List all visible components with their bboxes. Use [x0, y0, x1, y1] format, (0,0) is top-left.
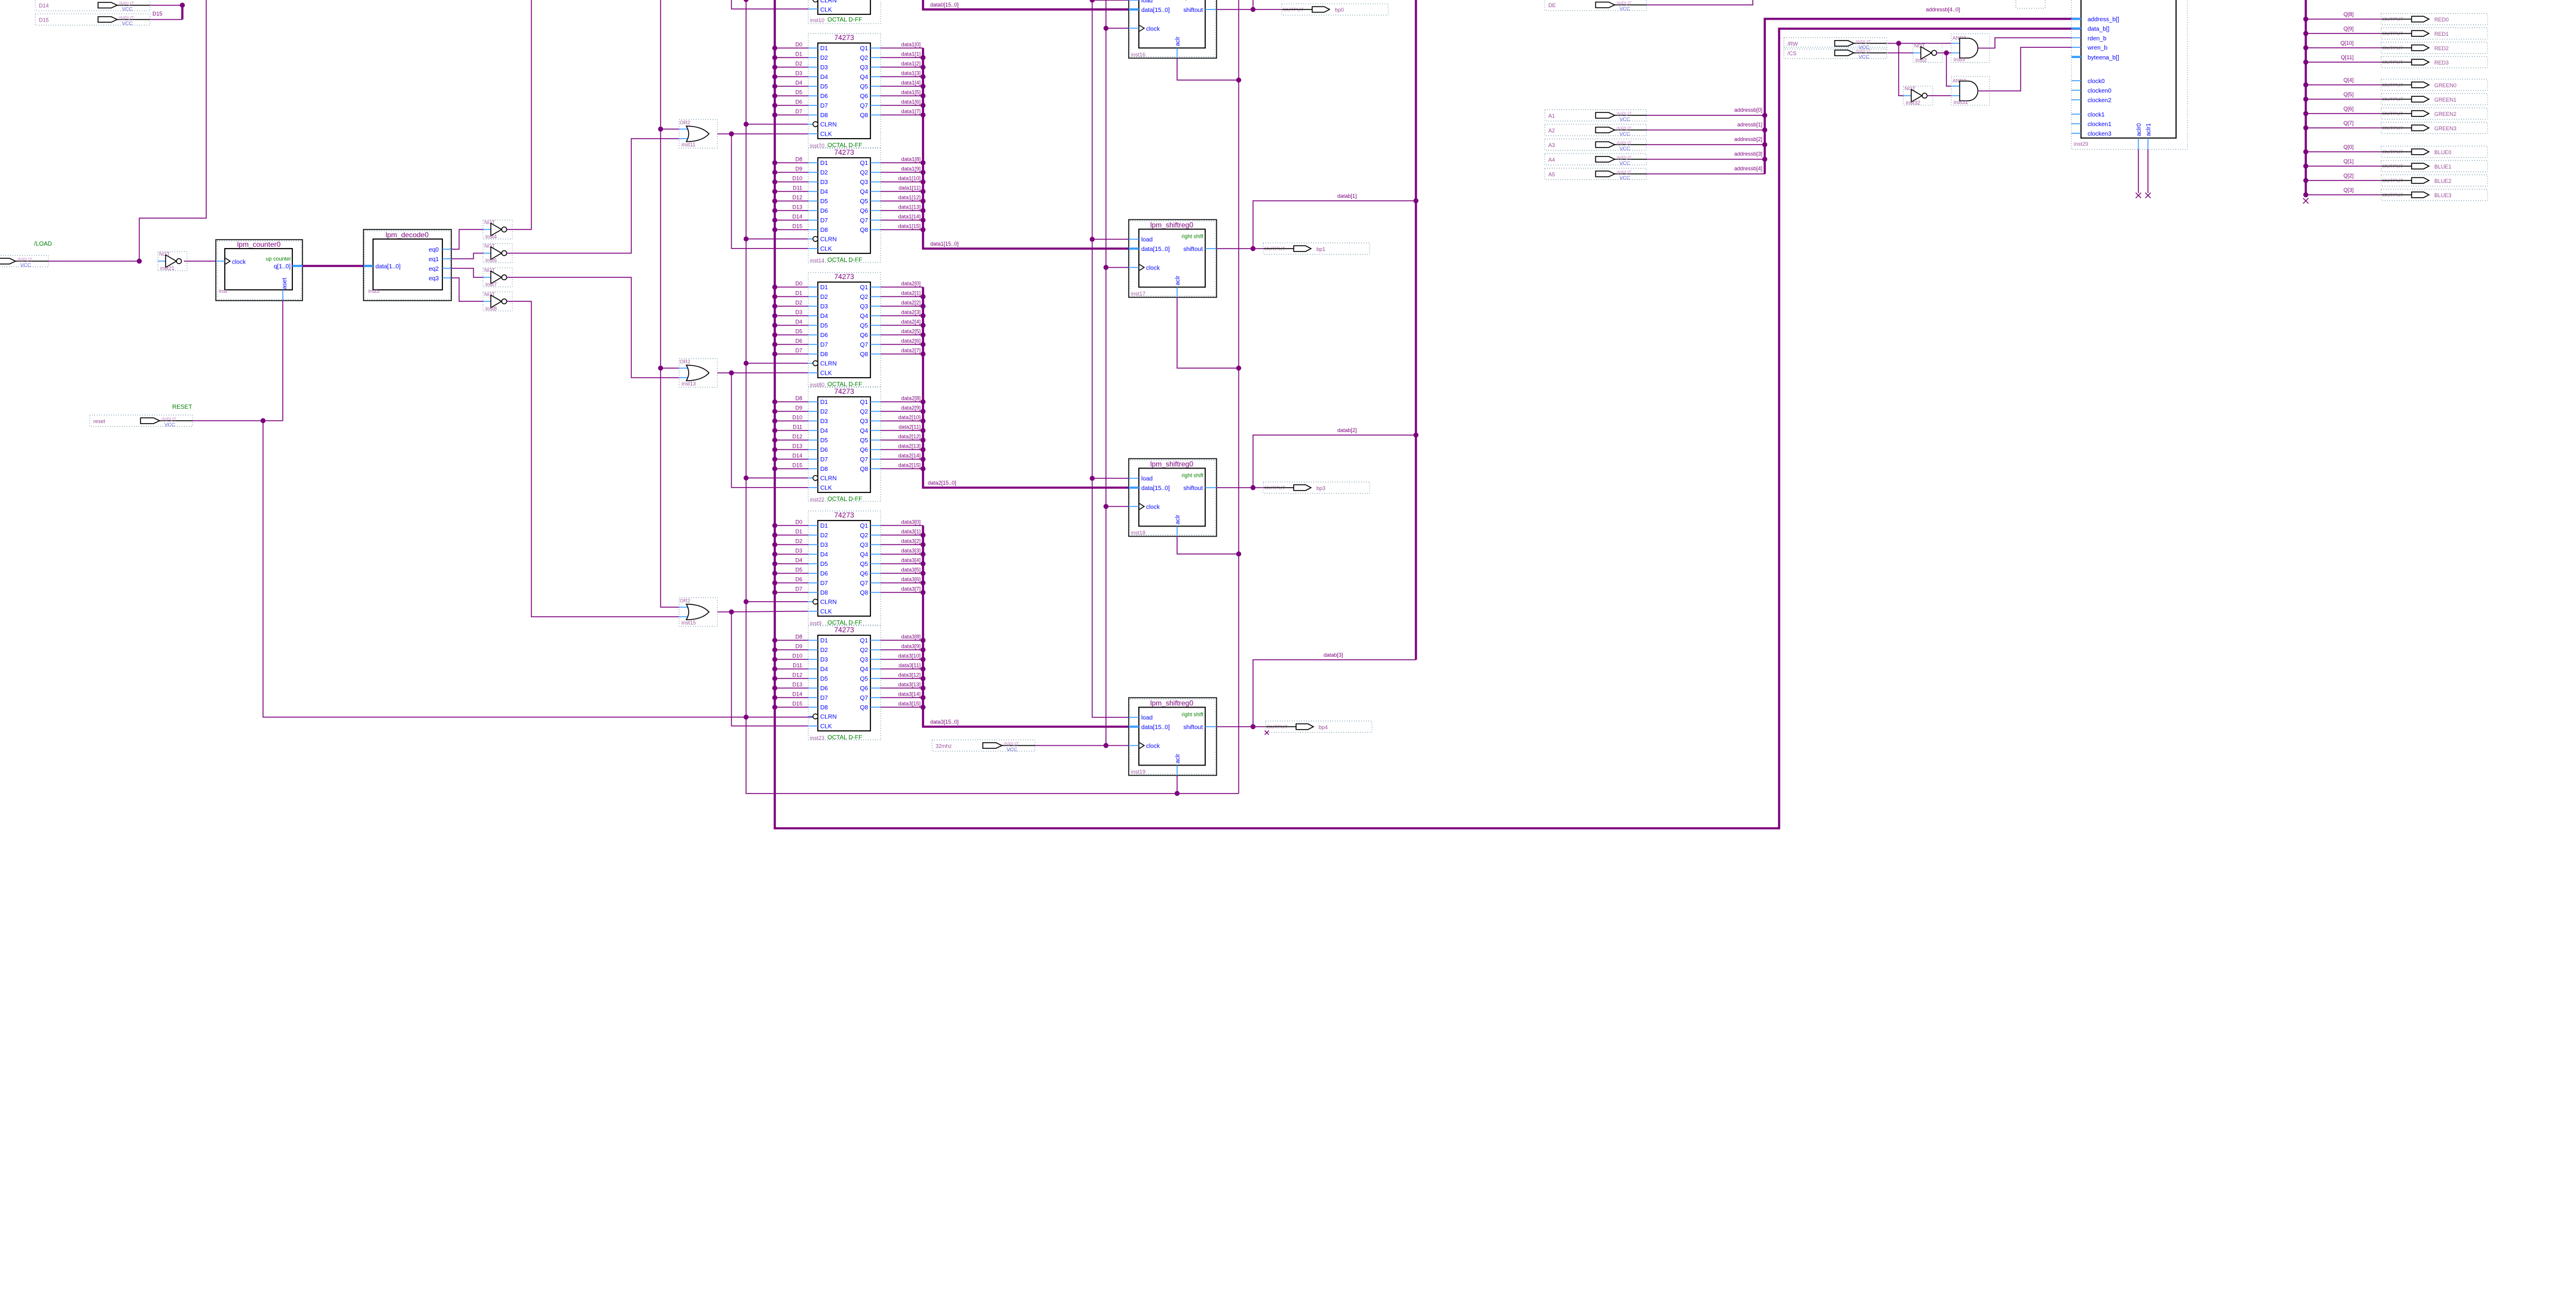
node adressb[1] label [1737, 122, 1762, 128]
junction bp3 [1251, 485, 1255, 490]
svg-text:data[15..0]: data[15..0] [1141, 485, 1170, 492]
wire /RW down to inst32 [1899, 44, 1903, 96]
svg-text:D4: D4 [795, 558, 802, 564]
and gate inst9 [1951, 34, 1990, 63]
svg-text:Q[1]: Q[1] [2343, 158, 2354, 164]
svg-text:inst6: inst6 [485, 258, 497, 264]
wire eq3 to inst8 [451, 278, 483, 301]
svg-text:D13: D13 [792, 443, 802, 449]
svg-text:data3[14]: data3[14] [898, 691, 921, 697]
wire datab[2] [1253, 435, 1416, 488]
net /LOAD label [34, 241, 52, 247]
wires Q outputs inst14 [881, 157, 923, 230]
svg-text:RESET: RESET [172, 404, 192, 411]
svg-text:VCC: VCC [1007, 746, 1017, 752]
output pin BLUE1 [2381, 161, 2488, 172]
svg-text:CLRN: CLRN [820, 476, 836, 482]
svg-text:74273: 74273 [834, 33, 854, 42]
or gate inst13 [679, 359, 717, 387]
node Q[8] label [2343, 11, 2354, 17]
svg-text:data3[3]: data3[3] [901, 548, 921, 554]
svg-text:D2: D2 [795, 300, 802, 306]
junction aclr inst16 [1236, 78, 1241, 82]
output pin GREEN2 [2381, 108, 2488, 120]
svg-text:D4: D4 [795, 319, 802, 325]
svg-text:GREEN0: GREEN0 [2434, 82, 2456, 88]
svg-text:Q7: Q7 [860, 580, 869, 587]
svg-text:data1[11]: data1[11] [899, 185, 921, 191]
svg-text:D3: D3 [820, 65, 828, 71]
output pin GREEN3 [2381, 123, 2488, 134]
wires D inputs inst23 [772, 634, 808, 710]
wire inst2 out down to inst31 [1946, 53, 1951, 87]
node Q[4] label [2343, 77, 2354, 83]
svg-text:data3[5]: data3[5] [901, 567, 921, 573]
svg-text:data3[7]: data3[7] [901, 586, 921, 592]
svg-text:load: load [1141, 715, 1153, 721]
wire inst6 out to or inst11 [507, 139, 679, 253]
svg-text:VCC: VCC [1619, 131, 1630, 137]
wire shiftout inst18 [1217, 487, 1263, 488]
wire shiftout inst19 [1217, 726, 1266, 727]
svg-text:aset: aset [282, 278, 288, 289]
svg-text:data2[0]: data2[0] [901, 281, 921, 287]
svg-text:inst22: inst22 [810, 497, 824, 503]
svg-text:D3: D3 [820, 542, 828, 549]
svg-text:Q5: Q5 [860, 198, 869, 205]
svg-text:D6: D6 [795, 577, 802, 583]
svg-text:clocken2: clocken2 [2088, 97, 2111, 104]
svg-text:D5: D5 [820, 323, 828, 329]
input pin 32mhz [932, 740, 1035, 752]
svg-text:data1[3]: data1[3] [901, 71, 921, 76]
junction addressb1 [1762, 127, 1767, 132]
svg-text:inst11: inst11 [682, 142, 695, 148]
svg-text:Q5: Q5 [860, 676, 869, 682]
svg-text:load: load [1141, 237, 1153, 243]
svg-text:aclr: aclr [1175, 754, 1181, 764]
wires Q outputs inst80 [881, 281, 923, 354]
svg-text:inst4: inst4 [485, 234, 497, 240]
svg-text:VCC: VCC [1619, 160, 1630, 166]
svg-text:wren_b: wren_b [2087, 45, 2107, 51]
net RESET label [172, 404, 192, 411]
junction bp0 [1251, 7, 1255, 12]
svg-text:D2: D2 [820, 170, 828, 176]
svg-text:D15: D15 [792, 224, 802, 229]
node addressb[4..0] label [1926, 7, 1960, 13]
svg-text:data1[5]: data1[5] [901, 90, 921, 96]
svg-text:D3: D3 [820, 418, 828, 425]
wire Q[5] to GREEN1 [2303, 97, 2381, 102]
svg-text:D10: D10 [792, 176, 802, 182]
output pin BLUE0 [2381, 146, 2488, 158]
svg-text:OR2: OR2 [680, 359, 690, 365]
74273 OCTAL D-FF inst14 [808, 148, 881, 264]
svg-text:Q1: Q1 [860, 45, 869, 52]
output pin RED0 [2381, 14, 2488, 25]
svg-text:inst2: inst2 [1915, 57, 1927, 63]
bus Q outputs vertical [2305, 0, 2307, 197]
svg-text:D4: D4 [820, 552, 828, 558]
node addressb[0] label [1734, 107, 1762, 113]
input pin A2 [1545, 124, 1646, 137]
svg-text:D8: D8 [795, 157, 802, 163]
svg-text:D3: D3 [820, 657, 828, 663]
svg-text:BLUE1: BLUE1 [2434, 164, 2452, 170]
lpm_shiftreg0 inst18 [1129, 459, 1217, 537]
wire aclr1 dangling [2147, 149, 2149, 193]
svg-text:clock1: clock1 [2088, 112, 2105, 118]
wires Q outputs inst23 [881, 634, 923, 708]
svg-text:D15: D15 [792, 463, 802, 469]
svg-text:eq0: eq0 [429, 247, 439, 253]
svg-text:eq2: eq2 [429, 266, 439, 273]
wires D inputs inst70 [772, 42, 808, 118]
wire aclr0 dangling [2138, 149, 2139, 193]
svg-text:D2: D2 [795, 61, 802, 67]
svg-text:BLUE2: BLUE2 [2434, 178, 2452, 184]
junction datab[1] on bus [1413, 198, 1418, 203]
junction addressb2 [1762, 142, 1767, 147]
svg-text:inst18: inst18 [1131, 530, 1145, 536]
svg-text:Q7: Q7 [860, 342, 869, 348]
output pin GREEN0 [2381, 79, 2488, 91]
svg-text:Q2: Q2 [860, 55, 869, 62]
bus data2[15..0] [921, 287, 1129, 488]
wires Q outputs inst22 [881, 396, 923, 469]
svg-text:D5: D5 [820, 84, 828, 90]
svg-text:D14: D14 [792, 691, 802, 697]
74273 OCTAL D-FF inst22 [808, 387, 881, 503]
svg-text:D1: D1 [795, 51, 802, 57]
svg-text:data[1..0]: data[1..0] [375, 264, 401, 270]
bus data2 label [928, 480, 957, 486]
bus data0[15..0] [923, 0, 1129, 10]
svg-text:D2: D2 [820, 294, 828, 301]
svg-text:D0: D0 [795, 42, 802, 48]
svg-text:GREEN3: GREEN3 [2434, 125, 2456, 131]
svg-text:OR2: OR2 [680, 120, 690, 125]
svg-text:D3: D3 [820, 179, 828, 186]
svg-text:RED1: RED1 [2434, 31, 2449, 37]
wire aclr inst16 [1177, 58, 1239, 80]
wire or-chain vertical [661, 0, 679, 607]
svg-text:Q7: Q7 [860, 218, 869, 224]
junction clrn inst23 on reset net [744, 715, 748, 720]
svg-text:data1[1]: data1[1] [901, 51, 921, 57]
wire Q[6] to GREEN2 [2303, 111, 2381, 116]
svg-text:clocken1: clocken1 [2088, 121, 2111, 128]
svg-text:data3[10]: data3[10] [898, 653, 921, 659]
svg-text:shiftout: shiftout [1183, 246, 1203, 253]
svg-text:D8: D8 [795, 396, 802, 402]
output pin bp0 [1282, 4, 1388, 15]
wire Q[1] to BLUE1 [2303, 164, 2381, 169]
svg-text:A5: A5 [1548, 172, 1555, 177]
junction /RW [1896, 41, 1901, 45]
output pin BLUE3 [2381, 189, 2488, 201]
wire Q[3] to BLUE3 [2303, 192, 2381, 197]
svg-text:Q[4]: Q[4] [2343, 77, 2354, 83]
input pin /RW [1784, 38, 1887, 50]
svg-text:data2[3]: data2[3] [901, 310, 921, 316]
wire Q[10] to RED2 [2303, 45, 2381, 50]
svg-text:rden_b: rden_b [2088, 35, 2107, 42]
svg-text:D8: D8 [820, 705, 828, 711]
svg-text:D11: D11 [793, 185, 802, 191]
svg-text:data2[12]: data2[12] [898, 434, 921, 440]
svg-text:D7: D7 [820, 457, 828, 463]
input pin A4 [1545, 154, 1646, 166]
junction clrn inst80 [744, 361, 748, 366]
svg-text:CLK: CLK [820, 609, 832, 616]
svg-text:Q6: Q6 [860, 332, 869, 339]
svg-text:data2[7]: data2[7] [901, 348, 921, 354]
svg-text:lpm_counter0: lpm_counter0 [237, 240, 281, 249]
svg-text:VCC: VCC [1619, 117, 1630, 123]
svg-text:byteena_b[]: byteena_b[] [2088, 54, 2119, 61]
junction aclr drop inst19 [1175, 791, 1179, 796]
wire inst2 out [1937, 53, 1951, 54]
svg-text:data3[2]: data3[2] [901, 538, 921, 544]
svg-text:q[1..0]: q[1..0] [274, 264, 291, 270]
wires D inputs inst14 [772, 157, 808, 232]
wire inst8 out to or inst15 [507, 301, 679, 617]
svg-text:inst80: inst80 [810, 382, 824, 388]
svg-text:Q6: Q6 [860, 208, 869, 215]
svg-text:D6: D6 [820, 208, 828, 215]
svg-text:D6: D6 [820, 332, 828, 339]
svg-text:D7: D7 [820, 103, 828, 109]
svg-text:A2: A2 [1548, 127, 1555, 133]
bus D vertical and bottom run [775, 0, 2081, 828]
wire clrn chain vertical [746, 0, 1239, 794]
svg-text:D3: D3 [820, 304, 828, 310]
svg-text:/CS: /CS [1787, 50, 1796, 56]
svg-text:inst8: inst8 [485, 305, 497, 311]
svg-text:Q4: Q4 [860, 74, 869, 81]
node addressb[3] label [1734, 151, 1762, 157]
bus data1[15..0] [921, 48, 1129, 249]
svg-text:CLK: CLK [820, 7, 832, 14]
svg-text:data1[4]: data1[4] [901, 80, 921, 86]
wire clrn to inst22 [746, 477, 808, 479]
output pin RED3 [2381, 57, 2488, 68]
output pin RED2 [2381, 42, 2488, 54]
x mark aclr0 [2136, 193, 2141, 198]
svg-text:inst29: inst29 [2074, 141, 2088, 147]
wire aset from reset [282, 301, 283, 421]
svg-text:D7: D7 [795, 348, 802, 354]
svg-text:data3[1]: data3[1] [901, 529, 921, 535]
wire clock chain [1104, 0, 1129, 748]
node Q[9] label [2343, 26, 2354, 32]
wire A1 to bus [1646, 115, 1765, 116]
svg-text:clocken3: clocken3 [2088, 131, 2111, 137]
svg-text:D11: D11 [793, 424, 802, 430]
svg-text:Q6: Q6 [860, 93, 869, 100]
output pin RED1 [2381, 28, 2488, 39]
wire inst13 out [717, 372, 808, 374]
svg-text:74273: 74273 [834, 626, 854, 634]
svg-text:data3[11]: data3[11] [899, 663, 921, 669]
svg-text:D15: D15 [152, 11, 163, 17]
74273 OCTAL D-FF inst80 [808, 273, 881, 388]
svg-text:D9: D9 [795, 405, 802, 411]
node datab[3] label [1324, 652, 1343, 658]
74273 OCTAL D-FF inst10 (partial) [746, 0, 881, 24]
svg-text:Q3: Q3 [860, 657, 869, 663]
svg-text:GREEN1: GREEN1 [2434, 97, 2456, 103]
junction /LOAD [137, 259, 142, 264]
svg-text:data1[12]: data1[12] [898, 195, 921, 201]
output pin bp3 [1263, 482, 1370, 494]
lpm_decode0 inst3 [363, 229, 451, 301]
svg-text:Q5: Q5 [860, 84, 869, 90]
svg-text:Q[5]: Q[5] [2343, 91, 2354, 97]
svg-text:data0[15..0]: data0[15..0] [930, 2, 959, 8]
wire A3 to bus [1646, 144, 1765, 145]
junction clk2 [729, 371, 734, 375]
svg-text:D5: D5 [820, 198, 828, 205]
svg-text:Q4: Q4 [860, 666, 869, 673]
wire aclr inst18 [1177, 537, 1239, 555]
svg-text:D5: D5 [795, 90, 802, 96]
svg-text:clock: clock [1146, 504, 1160, 511]
svg-text:right shift: right shift [1181, 234, 1203, 240]
bus data0 label [930, 2, 959, 8]
svg-text:data2[14]: data2[14] [898, 453, 921, 459]
svg-text:adressb[1]: adressb[1] [1737, 122, 1762, 128]
wire clrn to inst70 [746, 124, 808, 125]
svg-text:Q5: Q5 [860, 437, 869, 444]
svg-text:addressb[4..0]: addressb[4..0] [1926, 7, 1960, 13]
svg-text:D13: D13 [792, 204, 802, 210]
svg-text:Q1: Q1 [860, 638, 869, 644]
svg-text:data1[6]: data1[6] [901, 99, 921, 105]
svg-text:D8: D8 [820, 590, 828, 596]
svg-text:data3[15]: data3[15] [898, 701, 921, 707]
bus addressb vertical [1765, 19, 2081, 174]
svg-text:Q1: Q1 [860, 160, 869, 167]
svg-text:CLK: CLK [820, 131, 832, 138]
wire Q[2] to BLUE2 [2303, 178, 2381, 183]
svg-text:reset: reset [93, 418, 106, 424]
dotted fragment (cut gate) [2016, 0, 2045, 8]
svg-text:shiftout: shiftout [1183, 7, 1203, 14]
input pin DE [1545, 0, 1646, 12]
junction addressb3 [1762, 157, 1767, 161]
svg-text:eq3: eq3 [429, 275, 439, 282]
svg-text:Q5: Q5 [860, 561, 869, 568]
svg-text:D1: D1 [820, 284, 828, 291]
svg-text:D5: D5 [795, 567, 802, 573]
svg-text:Q3: Q3 [860, 65, 869, 71]
junction addressb0 [1762, 113, 1767, 118]
svg-text:addressb[2]: addressb[2] [1734, 136, 1762, 142]
svg-text:RED3: RED3 [2434, 60, 2449, 66]
wire /LOAD riser [139, 0, 206, 261]
svg-text:/RW: /RW [1787, 41, 1798, 47]
svg-text:D2: D2 [795, 538, 802, 544]
wires Q outputs inst9 [881, 519, 923, 593]
svg-text:D2: D2 [820, 532, 828, 539]
svg-text:D1: D1 [795, 290, 802, 296]
svg-text:clock: clock [1146, 26, 1160, 32]
x mark aclr1 [2146, 193, 2151, 198]
svg-text:inst15: inst15 [682, 620, 696, 626]
svg-text:bp3: bp3 [1316, 485, 1325, 491]
svg-text:VCC: VCC [1619, 175, 1630, 181]
svg-text:VCC: VCC [122, 6, 133, 12]
input pin reset [90, 415, 192, 428]
svg-text:GREEN2: GREEN2 [2434, 111, 2456, 117]
svg-text:D1: D1 [820, 523, 828, 529]
wire 32mhz to clock chain [1035, 745, 1106, 746]
svg-text:74273: 74273 [834, 511, 854, 519]
svg-text:D6: D6 [820, 447, 828, 454]
svg-text:data2[8]: data2[8] [901, 396, 921, 402]
svg-text:74273: 74273 [834, 387, 854, 396]
wire or-chain to inst13 [661, 368, 679, 369]
lpm_shiftreg0 inst19 [1129, 698, 1217, 776]
node Q[7] label [2343, 120, 2354, 126]
svg-text:clock0: clock0 [2088, 78, 2105, 85]
svg-text:D5: D5 [795, 329, 802, 335]
svg-text:D15: D15 [792, 701, 802, 707]
wire A4 to bus [1646, 159, 1765, 160]
node Q[6] label [2343, 106, 2354, 112]
wire Q[4] to GREEN0 [2303, 82, 2381, 87]
svg-text:74273: 74273 [834, 273, 854, 281]
svg-text:Q8: Q8 [860, 112, 869, 119]
svg-text:Q2: Q2 [860, 294, 869, 301]
svg-text:D6: D6 [795, 338, 802, 344]
svg-text:Q1: Q1 [860, 523, 869, 529]
wire datab[1] [1253, 201, 1416, 249]
svg-text:inst21: inst21 [160, 265, 175, 271]
svg-text:D12: D12 [792, 672, 802, 678]
not gate inst21 [158, 251, 187, 271]
svg-text:D6: D6 [795, 99, 802, 105]
node Q[11] label [2341, 54, 2354, 60]
svg-text:data1[7]: data1[7] [901, 109, 921, 115]
wire Q[9] to RED1 [2303, 31, 2381, 36]
svg-text:CLK: CLK [820, 371, 832, 377]
and gate inst31 [1951, 76, 1990, 105]
wire A5 to bus [1646, 173, 1765, 175]
svg-text:VCC: VCC [20, 262, 31, 268]
svg-text:Q7: Q7 [860, 457, 869, 463]
svg-text:inst13: inst13 [682, 381, 696, 387]
svg-text:data3[6]: data3[6] [901, 577, 921, 583]
svg-text:data2[2]: data2[2] [901, 300, 921, 306]
svg-text:D8: D8 [795, 634, 802, 640]
node Q[2] label [2343, 173, 2354, 179]
svg-text:Q3: Q3 [860, 418, 869, 425]
svg-text:inst: inst [219, 288, 228, 294]
svg-text:CLRN: CLRN [820, 599, 836, 606]
wire inst15 out [717, 611, 808, 612]
svg-text:CLRN: CLRN [820, 714, 836, 721]
svg-text:D3: D3 [795, 71, 802, 76]
svg-text:lpm_shiftreg0: lpm_shiftreg0 [1150, 460, 1193, 469]
svg-text:inst10: inst10 [810, 17, 824, 23]
lpm_shiftreg0 inst16 [1129, 0, 1217, 58]
input pin A1 [1545, 110, 1646, 123]
node Q[3] label [2343, 187, 2354, 193]
